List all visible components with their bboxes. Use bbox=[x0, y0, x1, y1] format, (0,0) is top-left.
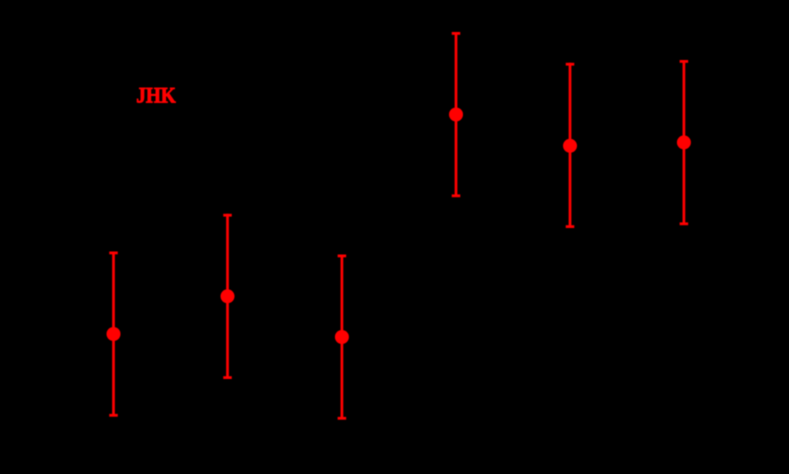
error bar 1 bbox=[107, 252, 121, 417]
error bar 5 bbox=[563, 63, 577, 228]
error bar 2 bbox=[221, 214, 235, 379]
error bar 6 bbox=[677, 60, 691, 225]
svg-text:JHK: JHK bbox=[136, 82, 176, 107]
error bar 4 bbox=[449, 32, 463, 197]
error bar 3 bbox=[335, 255, 349, 420]
